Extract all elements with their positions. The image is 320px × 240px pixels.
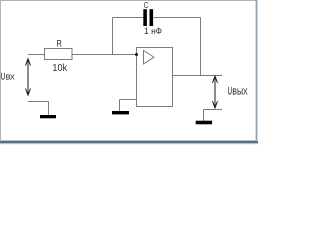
svg-text:C: C <box>144 0 149 10</box>
svg-text:1 нФ: 1 нФ <box>144 26 162 36</box>
svg-text:ВЫХ: ВЫХ <box>232 86 247 96</box>
svg-text:U: U <box>228 84 232 97</box>
svg-text:ВХ: ВХ <box>6 75 15 82</box>
svg-text:10k: 10k <box>52 62 67 73</box>
svg-text:R: R <box>57 39 62 49</box>
